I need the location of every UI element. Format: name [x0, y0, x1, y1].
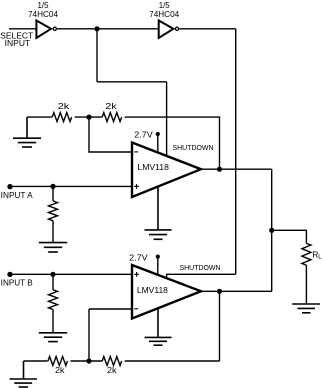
svg-text:74HC04: 74HC04	[28, 10, 59, 19]
ground at RA	[39, 243, 67, 252]
resistor RB (input B to ground)	[49, 274, 58, 333]
label SELECT INPUT	[0, 32, 33, 48]
resistor R2 2k	[102, 113, 121, 122]
node output B junction	[217, 289, 222, 294]
svg-text:INPUT B: INPUT B	[1, 278, 33, 287]
node feedback junction A	[86, 115, 91, 120]
wire R2 to output node A	[125, 117, 220, 169]
wire inverting B down to bottom row	[88, 309, 90, 361]
svg-text:LMV118: LMV118	[137, 286, 169, 295]
svg-text:L: L	[318, 254, 322, 260]
wire select across	[97, 81, 167, 83]
svg-text:SHUTDOWN: SHUTDOWN	[173, 145, 214, 152]
inverter U1A	[36, 21, 56, 39]
wire R4 to feedback B	[125, 360, 220, 362]
wire right rail down to shutdown B	[235, 29, 237, 274]
node feedback junction B	[86, 358, 91, 363]
wire U3 output	[201, 290, 272, 292]
resistor RL	[302, 243, 311, 304]
svg-text:INPUT: INPUT	[5, 39, 31, 48]
wire U1A output to U1B input	[57, 28, 159, 30]
wire ground to R1	[27, 116, 52, 118]
label RL	[312, 249, 322, 260]
node INPUT B terminal	[7, 272, 12, 277]
wire select junction down	[96, 29, 98, 82]
wire INPUT A to noninverting input	[10, 185, 133, 187]
wire shutdown B across and drop	[167, 274, 236, 278]
svg-text:2k: 2k	[107, 366, 118, 375]
resistor R1 2k	[52, 113, 71, 122]
node input B junction	[50, 272, 55, 277]
wire shutdown A drop	[166, 82, 168, 157]
node output A junction	[217, 167, 222, 172]
svg-text:2.7V: 2.7V	[134, 130, 153, 139]
op-amp U2 LMV118	[132, 143, 201, 198]
node INPUT A terminal	[7, 184, 12, 189]
wire feedback B down	[219, 291, 221, 361]
svg-text:LMV118: LMV118	[137, 163, 169, 172]
svg-text:1/5: 1/5	[159, 1, 171, 10]
ground at U2	[145, 186, 172, 239]
resistor R3 2k	[48, 357, 67, 366]
svg-text:2k: 2k	[105, 101, 117, 111]
svg-text:INPUT A: INPUT A	[1, 191, 34, 200]
node 2.7V supply A	[156, 132, 160, 153]
svg-text:1/5: 1/5	[38, 1, 50, 10]
node select junction	[94, 26, 99, 31]
label 1/5 74HC04 (U1A)	[28, 1, 59, 19]
wire inverting input B	[89, 308, 132, 310]
ground at bottom left	[10, 361, 38, 387]
ground at R1 left	[13, 117, 41, 147]
resistor RA (input A to ground)	[49, 186, 58, 242]
node 2.7V supply B	[156, 255, 160, 276]
wire U2 output	[201, 168, 272, 170]
wire U1B output to right rail	[179, 28, 236, 30]
wire to RL	[272, 230, 307, 243]
wire INPUT B to noninverting input	[10, 273, 133, 275]
node load junction	[269, 228, 274, 233]
svg-text:74HC04: 74HC04	[149, 10, 180, 19]
inverter U1B	[159, 21, 179, 39]
label 1/5 74HC04 (U1B)	[149, 1, 180, 19]
svg-text:2.7V: 2.7V	[129, 253, 148, 262]
svg-text:2k: 2k	[58, 101, 70, 111]
wire output rail down	[271, 169, 273, 291]
wire R1 to R2	[75, 116, 103, 118]
ground at RL	[292, 304, 320, 313]
svg-text:SHUTDOWN: SHUTDOWN	[180, 265, 221, 272]
svg-text:2k: 2k	[55, 366, 66, 375]
wire junction A down to inverting input	[89, 117, 132, 152]
resistor R4 2k	[102, 357, 121, 366]
node input A junction	[50, 184, 55, 189]
wire R3 to R4	[71, 360, 103, 362]
op-amp U3 LMV118	[132, 265, 201, 319]
ground at U3	[145, 308, 172, 345]
wire bottom row left	[24, 360, 48, 362]
ground at RB	[39, 333, 67, 342]
wire select input	[9, 28, 36, 30]
